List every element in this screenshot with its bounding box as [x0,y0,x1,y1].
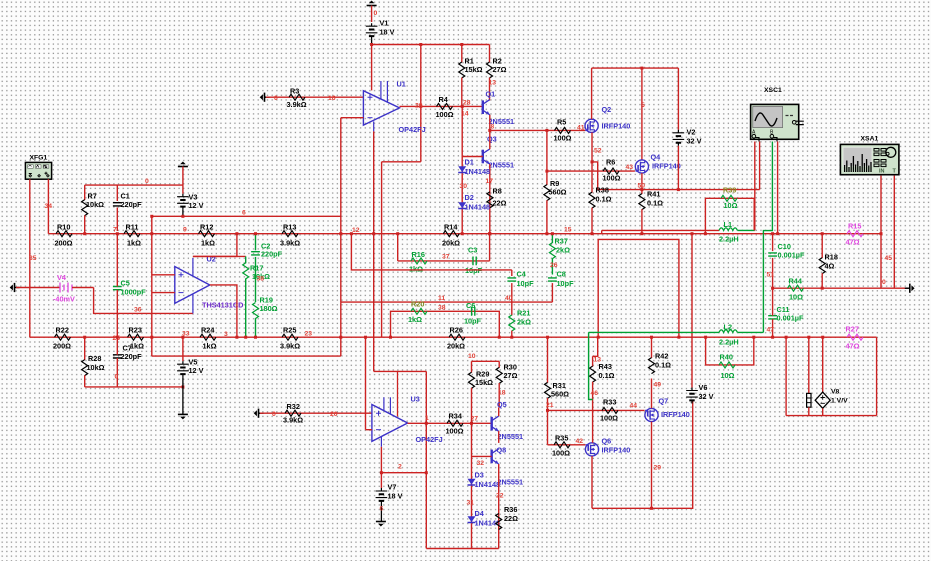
transistor Q5 2N5551 [492,400,523,441]
svg-text:2.2µH: 2.2µH [719,338,739,347]
node R41 bus [640,232,643,235]
svg-text:R6: R6 [606,158,615,167]
svg-text:32 V: 32 V [687,137,702,146]
net 20 [330,411,338,418]
svg-text:1kΩ: 1kΩ [130,342,144,351]
wire Q2 source [591,132,594,192]
svg-text:C4: C4 [517,270,527,279]
net 2 [398,464,402,471]
svg-text:9: 9 [183,227,187,234]
resistor R9 560 [544,130,567,233]
svg-text:47Ω: 47Ω [846,238,860,247]
wire x340.8 vertical [339,118,342,302]
svg-text:47: 47 [767,327,775,334]
svg-text:Q2: Q2 [602,105,612,114]
svg-text:1N4148: 1N4148 [475,480,501,489]
svg-text:1000pF: 1000pF [121,288,147,297]
svg-text:43: 43 [626,164,634,171]
battery V2 32 V [673,68,702,191]
resistor R3 3.9k [287,87,307,109]
svg-text:V4: V4 [57,273,67,282]
svg-text:220pF: 220pF [121,200,143,209]
resistor R34 100 [446,412,464,436]
ground (above V3) [178,162,188,186]
capacitor C5 1000pF [113,234,146,338]
wire U3 inv [366,429,372,431]
svg-text:R34: R34 [449,412,463,421]
net 29 [654,465,662,472]
svg-text:0: 0 [374,10,378,17]
svg-text:R37: R37 [555,237,568,246]
wire 270 branch [350,232,512,270]
wire bus4 [426,548,498,550]
resistor R33 100 [600,398,618,423]
svg-text:R43: R43 [599,362,612,371]
net 17 [486,178,494,185]
svg-text:32 V: 32 V [699,392,714,401]
wire x151.8 vertical [150,216,153,356]
net 32 [477,460,485,467]
transistor Q8 2N5551 [492,446,523,487]
ground (below V5) [178,414,188,419]
resistor R27 47 [846,325,864,351]
wire net6 line [152,215,341,217]
wire ground line 288 [771,287,908,290]
inductor L1 2.2uH [719,220,739,244]
node R9 bus [545,232,548,235]
wire x340.8 to 356 line [339,302,342,356]
svg-text:R23: R23 [129,326,142,335]
svg-text:1N4148: 1N4148 [465,203,491,212]
svg-text:49: 49 [654,382,662,389]
wire Q8 emitter [498,464,500,549]
net 37 [442,254,450,261]
resistor R13 3.9k [280,223,300,248]
svg-text:IRFP140: IRFP140 [661,410,690,419]
net 33 [182,331,190,338]
svg-text:4Ω: 4Ω [825,262,835,271]
net 1 [425,415,429,422]
svg-text:10pF: 10pF [464,317,482,326]
wire Q5 collector [498,408,500,417]
svg-text:11: 11 [438,295,445,302]
svg-text:L1: L1 [724,220,733,229]
svg-text:1kΩ: 1kΩ [408,315,422,324]
svg-text:IRFP140: IRFP140 [652,162,681,171]
svg-text:10Ω: 10Ω [724,201,738,210]
svg-text:R27: R27 [846,325,859,334]
wire 50 bus [598,189,760,191]
wire 10 line [472,360,500,362]
svg-text:30: 30 [460,183,468,190]
wire jog 52 to 50bus [592,162,598,190]
svg-text:R40: R40 [720,353,733,362]
capacitor C4 10pF [507,270,534,303]
net 26 [550,262,558,269]
svg-text:47Ω: 47Ω [846,342,860,351]
svg-text:15kΩ: 15kΩ [475,378,493,387]
svg-text:200Ω: 200Ω [55,239,73,248]
svg-text:R5: R5 [557,118,566,127]
wire 11 line [341,301,553,303]
resistor R15 47 [846,222,864,247]
svg-text:R4: R4 [439,95,449,104]
svg-text:6: 6 [242,210,246,217]
wire R28 gnd line [85,385,185,388]
net 13 [489,80,497,87]
resistor R42 0.1 [649,336,672,374]
svg-text:1kΩ: 1kΩ [409,265,423,274]
svg-text:37: 37 [442,254,450,261]
svg-text:100Ω: 100Ω [600,414,618,423]
mosfet Q7 IRFP140 [645,397,690,422]
svg-text:0: 0 [882,279,886,286]
svg-text:40: 40 [505,295,513,302]
wire 37 branch [396,232,399,261]
svg-text:10pF: 10pF [557,279,575,288]
ground connector (right) [905,284,915,293]
svg-text:-40mV: -40mV [53,295,75,304]
svg-text:2kΩ: 2kΩ [556,246,570,255]
net 11 [438,295,445,302]
svg-text:200Ω: 200Ω [53,342,71,351]
wire scope B plus [763,142,772,333]
svg-text:10Ω: 10Ω [721,371,735,380]
net 22 [496,493,504,500]
svg-text:R35: R35 [555,434,568,443]
svg-text:26: 26 [550,262,558,269]
wire V4 to 36 line [94,288,193,314]
net 28b [463,100,471,107]
battery V7 18 V [376,473,403,522]
resistor R11 1k [124,223,141,248]
net 12 [352,227,360,234]
svg-text:Q6: Q6 [602,437,612,446]
svg-text:R33: R33 [603,398,616,407]
node R8 bus [461,232,492,235]
svg-text:C3: C3 [468,246,477,255]
svg-text:1: 1 [425,415,429,422]
net 50 [638,183,646,190]
net 41 [577,125,585,132]
wire top rail 32V [592,67,679,70]
resistor R28 10k [82,336,105,387]
svg-text:22Ω: 22Ω [504,514,518,523]
oscilloscope XSC1 [751,87,804,142]
svg-text:V6: V6 [699,383,708,392]
net 9 [183,227,187,234]
svg-text:C6: C6 [466,301,475,310]
svg-text:23: 23 [305,331,313,338]
svg-text:Q3: Q3 [487,135,497,144]
node V5 top [150,215,153,218]
resistor R37 2k [549,232,570,274]
mosfet Q6 IRFP140 [585,437,630,457]
resistor R7 10k [82,185,104,234]
wire Q2 drain [591,68,593,119]
svg-text:R32: R32 [287,402,300,411]
svg-text:18: 18 [498,390,506,397]
wire L1 line green [738,229,755,231]
wire Q3 collector [489,130,491,149]
net 52 [594,148,602,155]
svg-text:3.9kΩ: 3.9kΩ [287,100,307,109]
svg-text:10kΩ: 10kΩ [87,363,105,372]
net 47 [767,327,775,334]
net 31 [467,500,475,507]
resistor R23 1k [128,326,145,351]
net 23 [305,331,313,338]
net 45 [885,255,893,262]
net 25 [113,335,121,342]
net 0 (R32) [272,411,276,418]
svg-text:15: 15 [564,227,572,234]
wire Q3 base [462,156,483,158]
svg-text:220pF: 220pF [261,250,283,259]
svg-text:2N5551: 2N5551 [498,432,524,441]
svg-text:18 V: 18 V [380,28,395,37]
svg-text:22: 22 [496,493,504,500]
svg-text:17: 17 [486,178,494,185]
svg-text:U1: U1 [397,80,406,89]
svg-text:29: 29 [654,465,662,472]
wire Q1 base junction [461,105,464,108]
capacitor C3 10pF [465,246,483,276]
wire U2 -in [152,292,175,294]
svg-text:0.001µF: 0.001µF [778,251,805,260]
svg-text:21: 21 [546,402,554,409]
wire green L2 drop [589,332,593,399]
svg-text:Q1: Q1 [486,90,496,99]
net 44 [630,403,638,410]
source V8 1 V/V [815,336,848,416]
capacitor C7 220pF [113,336,142,387]
svg-text:100Ω: 100Ω [446,427,464,436]
battery V6 32 V [686,232,713,403]
wire U2 +in [152,274,175,276]
svg-text:31: 31 [467,500,475,507]
svg-text:41: 41 [577,125,585,132]
svg-text:V1: V1 [380,19,389,28]
diode D1 1N4148 [458,158,490,176]
wire scope B minus [776,142,779,236]
svg-text:0.1Ω: 0.1Ω [596,195,612,204]
svg-text:13: 13 [489,80,497,87]
wire Q4 drain col [641,68,643,160]
wire Q7 drain [651,379,653,409]
svg-text:3.9kΩ: 3.9kΩ [280,342,300,351]
wire 2 line [381,472,426,474]
svg-text:R20: R20 [411,300,424,309]
net 0 (C7) [115,374,119,381]
resistor R31 560 [545,336,570,411]
net 36 [134,307,142,314]
svg-text:38: 38 [257,276,265,283]
svg-text:0.1Ω: 0.1Ω [599,371,615,380]
resistor R24 1k [200,326,217,351]
net 0 (R3 in) [274,95,278,102]
wire U3 V+ line [374,370,427,372]
svg-text:2N5551: 2N5551 [489,161,515,170]
resistor R30 27 [496,361,517,407]
op-amp U2 THS4131CD [175,255,244,314]
wire 356 line [152,355,341,357]
wire bus2 y337.2 [30,336,877,338]
net 28 (U1 out) [415,103,423,110]
svg-text:R11: R11 [126,223,139,232]
svg-text:Q8: Q8 [497,446,507,455]
wire U2 output [210,285,239,339]
wire L1 line red [602,229,719,231]
wire V8 left vertical [785,336,788,416]
svg-text:1kΩ: 1kΩ [127,239,141,248]
svg-text:0: 0 [145,178,149,185]
svg-text:28: 28 [415,103,423,110]
svg-text:R36: R36 [504,505,517,514]
svg-text:2.2µH: 2.2µH [719,235,739,244]
wire R27 right corner [876,337,878,415]
wire V8 bottom bus [786,415,877,417]
svg-text:20kΩ: 20kΩ [447,342,465,351]
svg-text:16: 16 [328,95,336,102]
function generator XFG1 [25,155,51,180]
diode D4 1N4148 [468,509,501,528]
svg-text:R13: R13 [283,223,296,232]
svg-text:10kΩ: 10kΩ [86,200,104,209]
wire U3 inv feedback [364,336,367,430]
resistor R36 22 [496,505,518,530]
svg-text:XFG1: XFG1 [30,155,48,162]
wire U1 inv input [341,117,364,119]
svg-text:20kΩ: 20kΩ [442,239,460,248]
wire scope A1 [754,142,756,231]
op-amp U1 OP42FJ [363,80,425,135]
net 34 [45,203,53,210]
svg-text:D1: D1 [465,158,474,167]
svg-text:R12: R12 [200,223,213,232]
svg-text:R18: R18 [825,253,838,262]
wire Q5 emitter [498,431,500,443]
wire mid rectangle [597,239,681,338]
resistor R19 180 [253,296,278,339]
wire x381.6 vertical [381,162,383,337]
capacitor C6 10pF [464,301,482,326]
net 18 [498,390,506,397]
svg-text:10: 10 [468,353,476,360]
svg-text:2N5551: 2N5551 [498,478,524,487]
svg-text:OP42FJ: OP42FJ [399,125,426,134]
net 6 [242,210,246,217]
net 7 [113,227,117,234]
svg-text:0: 0 [115,374,119,381]
net 46 [591,390,599,397]
svg-text:35: 35 [29,255,37,262]
node R31/R33 [546,409,549,412]
source V4 -40mV [10,273,94,304]
wire R40 loop [704,336,755,365]
svg-text:U3: U3 [411,395,420,404]
svg-text:Q7: Q7 [659,397,669,406]
svg-text:R3: R3 [290,87,299,96]
wire net0 line [85,184,183,186]
battery V1 18 V [366,19,395,45]
resistor R2 27 [487,45,507,101]
inductor L2 2.2uH [589,323,764,347]
resistor R12 1k [199,223,216,248]
battery V3 12 V [177,185,204,216]
svg-text:10pF: 10pF [517,279,535,288]
resistor R6 100 [603,158,621,183]
node V3 bottom [181,215,184,218]
connector input (R3 line) [260,93,364,102]
wire Q8 base [472,455,492,457]
resistor R18 4 [819,232,838,288]
svg-text:220pF: 220pF [121,352,143,361]
connector input (R32 line) [254,409,372,418]
svg-text:52: 52 [594,148,602,155]
capacitor C10 0.001uF [768,232,805,288]
wire U3 out [408,422,492,424]
svg-text:OP42FJ: OP42FJ [416,435,443,444]
wire Q3 emitter [489,164,491,234]
svg-text:560Ω: 560Ω [551,390,569,399]
svg-text:0: 0 [272,411,276,418]
svg-text:3: 3 [224,331,228,338]
wire Q1 emitter [488,115,491,132]
transistor Q1 2N5551 [483,90,514,127]
diode D3 1N4148 [468,471,501,490]
wire x426.3 vertical [425,371,428,548]
resistor R17 10k [243,256,270,338]
resistor R4 100 [436,95,454,119]
svg-text:R42: R42 [655,352,668,361]
resistor R43 0.1 [590,356,615,442]
net 5 [641,102,645,109]
svg-text:46: 46 [591,390,599,397]
svg-text:IRFP140: IRFP140 [602,446,631,455]
net 13b [594,357,602,364]
svg-text:36: 36 [134,307,142,314]
wire L1 jog [601,230,603,233]
svg-text:V8: V8 [831,389,840,396]
net 40 [505,295,513,302]
node junction rail/R1 [460,43,463,46]
svg-text:R24: R24 [201,326,215,335]
transistor Q3 2N5551 [483,135,514,170]
resistor R20 1k [408,300,427,325]
net 21 [546,402,554,409]
spectrum analyzer XSA1 [840,136,899,175]
net 42 [576,438,584,445]
node R29 junction [470,422,473,425]
svg-text:XSA1: XSA1 [861,136,879,143]
svg-text:D4: D4 [475,509,485,518]
svg-text:180Ω: 180Ω [260,304,278,313]
svg-text:34: 34 [45,203,53,210]
wire D3 column [471,423,473,548]
wire +18V rail [370,43,489,46]
resistor R32 3.9k [283,402,303,425]
wire Q6 source [591,456,593,508]
node R38 bus [591,232,594,235]
op-amp U3 OP42FJ [372,371,443,446]
resistor R1 15k [459,45,483,107]
capacitor C8 10pF [548,270,574,303]
svg-text:V2: V2 [687,128,696,137]
resistor R16 1k [409,250,427,274]
svg-text:R8: R8 [493,187,502,196]
svg-text:100Ω: 100Ω [603,174,621,183]
